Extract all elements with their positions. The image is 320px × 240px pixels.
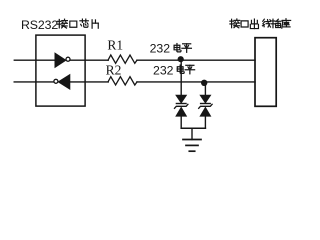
diode D1 (left chain top, cathode down) xyxy=(176,95,187,103)
label: RS232 interface chip title xyxy=(21,18,98,32)
node A: junction dot on top wire xyxy=(178,56,184,62)
wire: right chain down to join xyxy=(204,116,206,128)
svg-text:R1: R1 xyxy=(107,37,123,52)
zener D4 (right chain bottom, cathode up, Z-bar) xyxy=(199,104,212,116)
label: interface outlet socket title xyxy=(230,19,291,29)
inverter U1B (driver, points left, bubble on output at left) xyxy=(54,75,70,89)
zener D2 (left chain bottom, cathode up, Z-bar) xyxy=(175,104,188,116)
connector box J1 (interface outlet socket) xyxy=(255,38,276,107)
wire: left chain down to join xyxy=(180,116,182,128)
label R2 xyxy=(106,63,122,78)
wire: U1B input to R2 xyxy=(70,81,108,83)
diode D3 (right chain top, cathode down) xyxy=(200,95,211,103)
label: 232 level (top) xyxy=(150,41,192,55)
node B: junction dot on bottom wire xyxy=(201,80,207,86)
chip box U1 (RS232 interface chip) xyxy=(36,35,85,106)
resistor R2 xyxy=(108,77,137,85)
inverter U1A (receiver, points right, bubble on output) xyxy=(55,53,70,67)
wire: R2 to connector J1 pin (bottom) xyxy=(137,81,255,83)
svg-text:R2: R2 xyxy=(106,63,122,78)
ground xyxy=(183,140,201,152)
wire: node A down to clamp diodes (crosses bottom wire, no connection) xyxy=(180,59,182,95)
wire: U1A output to R1 xyxy=(70,59,108,61)
resistor R1 xyxy=(108,55,137,63)
svg-text:232: 232 xyxy=(153,63,174,77)
wire: bottom joining wire between chains xyxy=(181,127,205,129)
wire: node B down to clamp diodes xyxy=(204,83,206,96)
wire: R1 to connector J1 pin (top) xyxy=(137,59,255,61)
wire: stem to ground xyxy=(191,128,193,139)
label: 232 level (bottom) xyxy=(153,63,195,77)
label R1 xyxy=(107,37,123,52)
svg-text:RS232: RS232 xyxy=(21,18,58,32)
svg-text:232: 232 xyxy=(150,41,171,55)
wire: bottom-left output from chip xyxy=(14,81,54,83)
wire: top-left input to chip xyxy=(14,59,55,61)
